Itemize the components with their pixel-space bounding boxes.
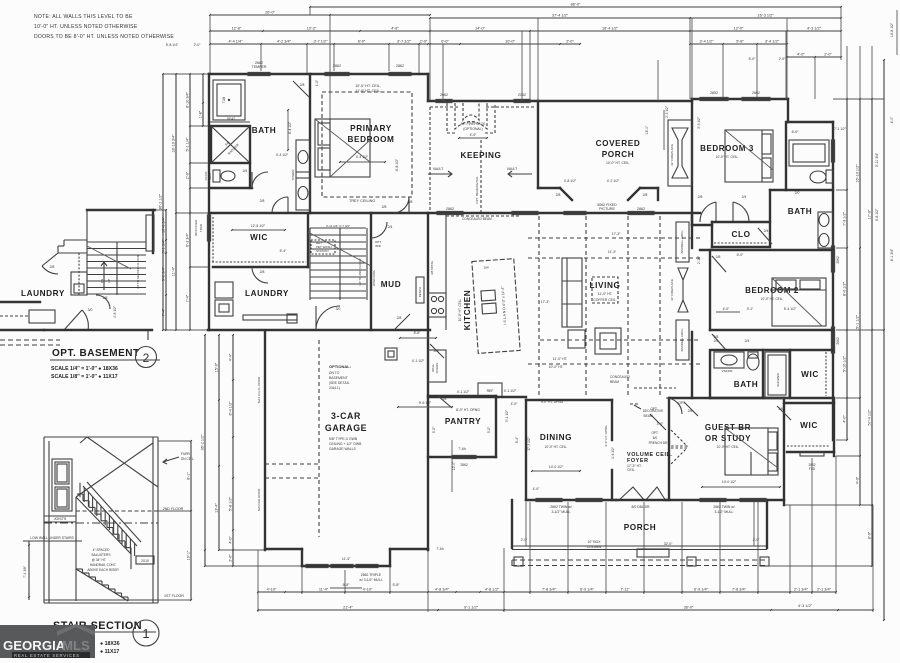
svg-text:CEILING + 1/2″ GWB: CEILING + 1/2″ GWB — [329, 442, 362, 446]
svg-text:1′-0″: 1′-0″ — [315, 79, 319, 86]
svg-text:8′-10 3/4″: 8′-10 3/4″ — [186, 91, 190, 108]
svg-text:16′-10 1/2″: 16′-10 1/2″ — [856, 164, 860, 183]
svg-text:4′-3 1/2″: 4′-3 1/2″ — [798, 604, 813, 608]
svg-text:2′-0″: 2′-0″ — [566, 40, 574, 44]
svg-text:26′-0″: 26′-0″ — [265, 11, 275, 15]
svg-text:2862: 2862 — [460, 463, 468, 467]
svg-text:BENCH: BENCH — [418, 287, 422, 298]
svg-text:10′-0″ HT.: 10′-0″ HT. — [549, 365, 564, 369]
svg-text:57′-4 1/2″: 57′-4 1/2″ — [868, 409, 872, 426]
svg-text:5′-8 1/4″: 5′-8 1/4″ — [166, 43, 179, 47]
svg-text:4′-10″: 4′-10″ — [267, 588, 277, 592]
svg-text:OPT.: OPT. — [651, 431, 658, 435]
svg-text:JOISTS: JOISTS — [54, 517, 67, 521]
svg-text:10′-0″ HT. UNLESS NOTED OTH: 10′-0″ HT. UNLESS NOTED OTHERWISE — [34, 24, 138, 30]
svg-text:7′-4″: 7′-4″ — [162, 308, 166, 316]
svg-text:REAL ESTATE SERVICES: REAL ESTATE SERVICES — [14, 653, 80, 658]
svg-text:2′-0″: 2′-0″ — [420, 40, 428, 44]
svg-text:PRIMARY: PRIMARY — [350, 124, 392, 133]
svg-text:10′-1″: 10′-1″ — [187, 550, 191, 560]
svg-text:DW: DW — [484, 265, 489, 269]
svg-text:2/8: 2/8 — [300, 83, 305, 87]
svg-text:2/4: 2/4 — [714, 339, 719, 343]
svg-text:4′-1 1/2″: 4′-1 1/2″ — [504, 389, 517, 393]
svg-text:UP: UP — [107, 279, 111, 283]
svg-text:8′-1 3/4″: 8′-1 3/4″ — [890, 248, 894, 261]
svg-text:6′-0″: 6′-0″ — [441, 40, 449, 44]
svg-text:11′-0″ HT.: 11′-0″ HT. — [598, 292, 612, 296]
svg-text:1′-6 1/2″: 1′-6 1/2″ — [611, 446, 615, 459]
svg-text:6′-4″: 6′-4″ — [515, 436, 519, 443]
svg-text:2′-0″: 2′-0″ — [186, 171, 190, 179]
svg-text:2′-0″: 2′-0″ — [229, 554, 233, 562]
svg-text:4′-8 3/4″: 4′-8 3/4″ — [435, 588, 450, 592]
svg-text:4′-4 1/2″: 4′-4 1/2″ — [276, 153, 289, 157]
svg-text:12′-8″: 12′-8″ — [232, 27, 242, 31]
svg-text:SCALE 1/4″ = 1′-0″ ● 18X36: SCALE 1/4″ = 1′-0″ ● 18X36 — [51, 366, 118, 372]
svg-text:7′-1 1/2″: 7′-1 1/2″ — [834, 127, 847, 131]
svg-text:4′-3 1/2″: 4′-3 1/2″ — [807, 27, 822, 31]
svg-text:4′-4″: 4′-4″ — [229, 353, 233, 361]
svg-text:10′-0″ HT. CEIL.: 10′-0″ HT. CEIL. — [355, 84, 381, 88]
svg-text:3-1/2″ MULL: 3-1/2″ MULL — [715, 510, 734, 514]
svg-text:3′-1 3/4″: 3′-1 3/4″ — [162, 239, 166, 254]
svg-text:MUD: MUD — [381, 280, 401, 289]
svg-text:w/ 3-1/2″ MULL: w/ 3-1/2″ MULL — [359, 578, 382, 582]
svg-text:BARRELL ARCH: BARRELL ARCH — [680, 231, 684, 254]
svg-text:OPTIONAL:: OPTIONAL: — [329, 364, 351, 369]
svg-text:16′-4 1/2″: 16′-4 1/2″ — [602, 27, 619, 31]
svg-text:8′-0″ HT. OPNG: 8′-0″ HT. OPNG — [456, 408, 480, 412]
svg-text:DN: DN — [100, 279, 104, 283]
svg-text:2/8: 2/8 — [716, 255, 721, 259]
svg-text:LOW WALL UNDER STAIRS: LOW WALL UNDER STAIRS — [30, 536, 74, 540]
svg-text:10′-2″: 10′-2″ — [307, 27, 317, 31]
svg-text:86′-0″: 86′-0″ — [571, 3, 581, 7]
svg-text:5′-8″: 5′-8″ — [343, 583, 351, 587]
svg-text:4′-0″: 4′-0″ — [797, 53, 805, 57]
svg-text:3′-3 1/2″: 3′-3 1/2″ — [697, 116, 701, 129]
svg-text:36′-0″: 36′-0″ — [684, 606, 694, 610]
svg-text:2862: 2862 — [333, 64, 341, 68]
svg-text:11′-4″: 11′-4″ — [342, 557, 351, 561]
svg-text:15′-0″: 15′-0″ — [215, 362, 219, 372]
svg-text:CEIL.: CEIL. — [627, 468, 636, 472]
svg-text:42″ FIREPLACE: 42″ FIREPLACE — [670, 279, 674, 301]
svg-text:CONCEALED BEAM: CONCEALED BEAM — [462, 217, 492, 221]
svg-text:4′-0″: 4′-0″ — [856, 476, 860, 484]
svg-text:2862 TRIPLE: 2862 TRIPLE — [361, 573, 382, 577]
svg-text:COFFER CEIL.: COFFER CEIL. — [593, 298, 616, 302]
svg-text:2862: 2862 — [836, 256, 840, 264]
svg-text:HANDRAIL CONT.: HANDRAIL CONT. — [90, 563, 117, 567]
svg-text:4′-1 1/2″: 4′-1 1/2″ — [412, 359, 425, 363]
svg-text:GARAGE WALLS: GARAGE WALLS — [329, 447, 357, 451]
svg-text:2862: 2862 — [836, 337, 840, 345]
svg-text:VS2430: VS2430 — [722, 369, 733, 373]
svg-text:2/A4.1): 2/A4.1) — [329, 386, 340, 390]
svg-text:10′-0″ HT. CEIL.: 10′-0″ HT. CEIL. — [716, 155, 739, 159]
svg-text:NOTE: ALL WALLS THIS LEVEL: NOTE: ALL WALLS THIS LEVEL TO BE — [34, 14, 133, 20]
svg-text:COLUMN: COLUMN — [587, 545, 602, 549]
svg-text:11′-0″ HT.: 11′-0″ HT. — [553, 357, 567, 361]
svg-text:36′-2 1/2″: 36′-2 1/2″ — [159, 193, 163, 210]
svg-text:SHOWER: SHOWER — [776, 372, 780, 386]
svg-text:7′-4″: 7′-4″ — [186, 294, 190, 302]
svg-text:4′-1 1/2″: 4′-1 1/2″ — [457, 390, 470, 394]
svg-text:4′-4 1/2″: 4′-4 1/2″ — [288, 121, 292, 134]
svg-text:3′-4 1/2″: 3′-4 1/2″ — [765, 40, 780, 44]
svg-text:OPEN RAIL: OPEN RAIL — [372, 270, 376, 286]
svg-text:2/4: 2/4 — [745, 339, 750, 343]
svg-text:(OPTIONAL): (OPTIONAL) — [463, 127, 482, 131]
svg-text:7′-4 1/8″: 7′-4 1/8″ — [23, 565, 27, 578]
svg-text:WIC: WIC — [800, 421, 818, 430]
svg-text:GARAGE: GARAGE — [325, 423, 367, 433]
svg-text:6′-0″: 6′-0″ — [792, 130, 800, 134]
svg-text:KITCHEN: KITCHEN — [463, 290, 472, 331]
svg-text:BATH: BATH — [734, 380, 759, 389]
svg-text:6′-9 1/4″: 6′-9 1/4″ — [580, 588, 595, 592]
svg-text:9′-1 1/2″: 9′-1 1/2″ — [464, 606, 479, 610]
svg-text:5′-8″: 5′-8″ — [393, 583, 401, 587]
svg-text:COVERED: COVERED — [596, 139, 641, 148]
svg-text:BARRELL ARCH: BARRELL ARCH — [680, 329, 684, 352]
svg-text:3-1/2″ MULL: 3-1/2″ MULL — [552, 510, 571, 514]
svg-text:PICTURE: PICTURE — [599, 207, 615, 211]
svg-text:DECORATIVE: DECORATIVE — [643, 409, 663, 413]
svg-text:32′-0″: 32′-0″ — [664, 542, 673, 546]
svg-text:42″ FIREPLACE: 42″ FIREPLACE — [670, 144, 674, 166]
svg-text:21′-4″: 21′-4″ — [343, 606, 353, 610]
svg-text:6′-9 1/4″: 6′-9 1/4″ — [694, 588, 709, 592]
svg-text:2ND FLOOR: 2ND FLOOR — [163, 507, 184, 511]
svg-text:BEDROOM: BEDROOM — [348, 135, 395, 144]
svg-text:8′-0 1/2″: 8′-0 1/2″ — [843, 281, 847, 296]
svg-text:5′-2 3/4″: 5′-2 3/4″ — [162, 266, 166, 281]
svg-text:6′-0″: 6′-0″ — [358, 40, 366, 44]
svg-text:2/4: 2/4 — [243, 169, 248, 173]
svg-text:9′-0″ HT. OPNG: 9′-0″ HT. OPNG — [604, 425, 608, 447]
svg-text:3′-7 1/2″: 3′-7 1/2″ — [397, 40, 412, 44]
svg-text:14′-0″: 14′-0″ — [475, 27, 485, 31]
svg-text:15′-1 1/2″: 15′-1 1/2″ — [856, 314, 860, 331]
svg-text:DOORS TO BE 8′-0″ HT. UNL: DOORS TO BE 8′-0″ HT. UNLESS NOTED OTHER… — [34, 34, 174, 40]
svg-text:7′-6h: 7′-6h — [458, 447, 466, 451]
svg-text:7′-11″: 7′-11″ — [620, 588, 630, 592]
svg-text:10″ BOX: 10″ BOX — [587, 540, 601, 544]
svg-text:14′-0 1/2″: 14′-0 1/2″ — [722, 480, 737, 484]
svg-text:18′-10 3/4″: 18′-10 3/4″ — [172, 134, 176, 153]
svg-text:5′-10 1/2″: 5′-10 1/2″ — [843, 355, 847, 372]
svg-text:2′-0″: 2′-0″ — [521, 538, 529, 542]
svg-text:LAUNDRY: LAUNDRY — [245, 289, 289, 298]
svg-text:STATION: STATION — [316, 249, 329, 253]
svg-text:37′-4 1/2″: 37′-4 1/2″ — [552, 14, 569, 18]
svg-text:OPT. BASEMENT: OPT. BASEMENT — [52, 348, 140, 359]
svg-text:DINING: DINING — [540, 433, 572, 442]
svg-text:5′-8″: 5′-8″ — [736, 40, 744, 44]
svg-text:2862 TWIN w/: 2862 TWIN w/ — [713, 505, 734, 509]
svg-text:2′-1 3/4″: 2′-1 3/4″ — [794, 588, 809, 592]
svg-text:4′-0″: 4′-0″ — [470, 133, 478, 137]
svg-text:UP TO SECOND FLOOR: UP TO SECOND FLOOR — [136, 254, 140, 289]
svg-text:14′-0 1/2″: 14′-0 1/2″ — [549, 465, 564, 469]
svg-text:● 18X36: ● 18X36 — [100, 641, 120, 647]
svg-text:10′-0″ HT. CEIL.: 10′-0″ HT. CEIL. — [545, 445, 568, 449]
svg-text:3′-1″: 3′-1″ — [747, 307, 755, 311]
svg-text:7′-6h: 7′-6h — [436, 547, 444, 551]
svg-text:3′-10 3/4″: 3′-10 3/4″ — [875, 152, 879, 167]
svg-text:2′-0″: 2′-0″ — [779, 57, 787, 61]
svg-text:SEAT: SEAT — [208, 172, 212, 180]
svg-text:PANTRY: PANTRY — [445, 417, 481, 426]
svg-text:SCALE 1/8″ = 1′-0″ ● 11X17: SCALE 1/8″ = 1′-0″ ● 11X17 — [51, 374, 118, 380]
svg-text:7′-8 3/4″: 7′-8 3/4″ — [542, 588, 557, 592]
svg-text:TEMPER: TEMPER — [252, 65, 267, 69]
svg-text:3′-7 1/2″: 3′-7 1/2″ — [314, 40, 329, 44]
svg-text:11′-4″: 11′-4″ — [319, 588, 329, 592]
svg-text:FXD: FXD — [809, 467, 816, 471]
svg-text:2/4: 2/4 — [742, 195, 747, 199]
svg-text:2/4: 2/4 — [764, 229, 769, 233]
svg-text:10′-0″ HT. CEIL.: 10′-0″ HT. CEIL. — [606, 161, 630, 165]
svg-text:● 11X17: ● 11X17 — [100, 649, 119, 655]
svg-text:3010 FIXED: 3010 FIXED — [194, 219, 198, 236]
svg-text:2862: 2862 — [396, 64, 404, 68]
svg-text:8/0 DBL DR.: 8/0 DBL DR. — [632, 505, 651, 509]
svg-text:BEDROOM 3: BEDROOM 3 — [700, 144, 754, 153]
svg-text:TREY CEILING: TREY CEILING — [349, 199, 375, 203]
svg-text:VAULT: VAULT — [507, 167, 517, 171]
svg-text:2/8: 2/8 — [556, 193, 561, 197]
svg-text:FRENCH DR: FRENCH DR — [649, 441, 668, 445]
svg-text:LAUNDRY: LAUNDRY — [21, 289, 65, 298]
svg-text:2852: 2852 — [752, 91, 760, 95]
svg-text:UP TO 2ND FLOOR: UP TO 2ND FLOOR — [358, 258, 362, 286]
svg-text:4′-4 1/2″: 4′-4 1/2″ — [356, 155, 369, 159]
svg-text:4′-4 1/4″: 4′-4 1/4″ — [229, 40, 244, 44]
svg-text:(SEE DETAIL: (SEE DETAIL — [329, 381, 350, 385]
svg-text:4′-0″: 4′-0″ — [890, 116, 894, 124]
svg-text:CONCEALED: CONCEALED — [610, 375, 631, 379]
svg-text:4″-SPACED: 4″-SPACED — [93, 548, 111, 552]
svg-text:2062: 2062 — [440, 93, 448, 97]
svg-text:4′-0″: 4′-0″ — [843, 415, 847, 423]
svg-text:WIC: WIC — [801, 370, 819, 379]
svg-text:3′-4 1/2″: 3′-4 1/2″ — [700, 40, 715, 44]
svg-text:4′-8 1/2″: 4′-8 1/2″ — [113, 305, 117, 318]
svg-text:12′-0″: 12′-0″ — [452, 461, 456, 470]
svg-text:2/0: 2/0 — [795, 191, 800, 195]
svg-text:BEAM: BEAM — [610, 380, 619, 384]
svg-text:OVENS: OVENS — [435, 363, 439, 374]
svg-text:5′-8 1/2″: 5′-8 1/2″ — [229, 496, 233, 511]
svg-text:OPT. BEAM DETAIL: OPT. BEAM DETAIL — [475, 176, 479, 203]
svg-text:8′-6″: 8′-6″ — [414, 331, 422, 335]
svg-text:3/8 OPNG: 3/8 OPNG — [430, 260, 434, 275]
svg-text:2852: 2852 — [710, 91, 718, 95]
svg-text:2/8: 2/8 — [260, 199, 265, 203]
svg-text:5′-4 1/2″: 5′-4 1/2″ — [784, 307, 797, 311]
svg-text:1′-8″: 1′-8″ — [199, 110, 203, 118]
svg-text:4′-2 3/4″: 4′-2 3/4″ — [277, 40, 292, 44]
svg-text:2/8: 2/8 — [260, 270, 265, 274]
svg-text:1ST FLOOR: 1ST FLOOR — [164, 594, 184, 598]
svg-text:14′-8 1/2″: 14′-8 1/2″ — [890, 22, 894, 37]
svg-text:BEAM: BEAM — [643, 414, 652, 418]
svg-text:11′-4″: 11′-4″ — [172, 266, 176, 276]
svg-text:2′-0″: 2′-0″ — [824, 53, 832, 57]
svg-text:17′-3″: 17′-3″ — [541, 300, 550, 304]
svg-text:4′-8 1/2″: 4′-8 1/2″ — [485, 588, 500, 592]
svg-text:4′-0″: 4′-0″ — [511, 402, 519, 406]
svg-text:2′-0″: 2′-0″ — [194, 43, 202, 47]
svg-text:4′-8″: 4′-8″ — [391, 27, 399, 31]
svg-text:6′-0″: 6′-0″ — [737, 253, 745, 257]
svg-text:13′-4″: 13′-4″ — [215, 503, 219, 513]
svg-text:4′-2 1/2″: 4′-2 1/2″ — [607, 179, 620, 183]
svg-text:36′-2 1/2″: 36′-2 1/2″ — [201, 434, 205, 451]
svg-text:OR STUDY: OR STUDY — [705, 434, 751, 443]
svg-text:SEAT: SEAT — [227, 117, 235, 121]
svg-text:10′-0″ HT. CEIL.: 10′-0″ HT. CEIL. — [717, 445, 740, 449]
svg-text:VAULT: VAULT — [433, 167, 443, 171]
svg-text:2: 2 — [143, 351, 150, 365]
svg-text:DN TO: DN TO — [329, 371, 340, 375]
svg-text:14′-0″: 14′-0″ — [645, 125, 649, 134]
svg-text:4′-0″: 4′-0″ — [229, 536, 233, 544]
svg-text:7′-8 3/4″: 7′-8 3/4″ — [732, 588, 747, 592]
svg-text:4′-10″: 4′-10″ — [363, 588, 373, 592]
svg-text:6′-0″: 6′-0″ — [749, 57, 757, 61]
svg-text:2/8: 2/8 — [643, 193, 648, 197]
svg-text:7′-3 1/2″: 7′-3 1/2″ — [843, 211, 847, 226]
svg-text:2′-10″: 2′-10″ — [697, 255, 701, 264]
svg-text:3-CAR: 3-CAR — [331, 411, 361, 421]
svg-text:ABOVE EACH RISER: ABOVE EACH RISER — [87, 568, 119, 572]
svg-text:4′-0″: 4′-0″ — [533, 487, 541, 491]
svg-text:6′-3 3/4″: 6′-3 3/4″ — [186, 232, 190, 247]
svg-text:4′-8 1/2″: 4′-8 1/2″ — [564, 179, 577, 183]
svg-text:3/0: 3/0 — [336, 307, 341, 311]
svg-text:GEORGIA: GEORGIA — [3, 638, 66, 653]
svg-text:2/8: 2/8 — [408, 200, 413, 204]
svg-text:BATH: BATH — [252, 126, 277, 135]
svg-text:TOWER: TOWER — [291, 169, 295, 181]
svg-text:1: 1 — [142, 626, 149, 641]
svg-text:WIC: WIC — [250, 233, 268, 242]
svg-text:2/8: 2/8 — [50, 265, 55, 269]
svg-text:5′-1 1/4″: 5′-1 1/4″ — [186, 137, 190, 152]
svg-text:8′-1″: 8′-1″ — [187, 472, 191, 480]
svg-text:2/8: 2/8 — [698, 195, 703, 199]
svg-text:10′-0″: 10′-0″ — [505, 40, 515, 44]
svg-text:10′-0″ HT. CEIL.: 10′-0″ HT. CEIL. — [458, 299, 462, 322]
svg-text:11′-3″: 11′-3″ — [608, 250, 617, 254]
svg-text:REF: REF — [487, 389, 494, 393]
svg-text:2/8: 2/8 — [382, 205, 387, 209]
svg-text:5′-0″: 5′-0″ — [487, 426, 491, 433]
svg-text:BASEMENT: BASEMENT — [329, 376, 348, 380]
svg-text:8′-0″: 8′-0″ — [868, 531, 872, 539]
svg-text:2/4: 2/4 — [388, 225, 393, 229]
svg-text:TRAN: TRAN — [199, 224, 203, 232]
svg-text:9′-0″ HT. OPNG: 9′-0″ HT. OPNG — [541, 400, 564, 404]
svg-text:8x16 O.H.G. DOOR: 8x16 O.H.G. DOOR — [257, 376, 261, 403]
svg-text:5′-4″: 5′-4″ — [280, 249, 288, 253]
svg-text:PORCH: PORCH — [624, 523, 657, 532]
svg-text:12′-0″: 12′-0″ — [734, 27, 744, 31]
svg-text:TUB: TUB — [222, 97, 226, 103]
svg-text:2X10: 2X10 — [141, 559, 149, 563]
svg-text:3/0: 3/0 — [88, 308, 93, 312]
svg-text:17′-0″: 17′-0″ — [868, 209, 872, 219]
svg-text:17′-3″: 17′-3″ — [612, 232, 621, 236]
svg-text:BATH: BATH — [788, 207, 813, 216]
svg-text:6/0: 6/0 — [653, 436, 658, 440]
svg-text:2/8: 2/8 — [397, 316, 402, 320]
svg-text:4′-8 1/2″: 4′-8 1/2″ — [875, 208, 879, 221]
svg-text:5′-0″: 5′-0″ — [432, 426, 436, 433]
svg-text:CLO: CLO — [731, 230, 750, 239]
svg-text:LIVING: LIVING — [590, 281, 621, 290]
svg-text:2862 TWIN w/: 2862 TWIN w/ — [550, 505, 571, 509]
svg-text:8′-4 1/2″: 8′-4 1/2″ — [229, 401, 233, 416]
svg-text:@ 34″ HT.: @ 34″ HT. — [92, 558, 107, 562]
svg-text:5′-1 1/2″: 5′-1 1/2″ — [505, 409, 509, 422]
svg-text:42″ FIREPLACE: 42″ FIREPLACE — [461, 122, 486, 126]
svg-text:2862: 2862 — [446, 207, 454, 211]
svg-text:DN CEIL.: DN CEIL. — [181, 457, 195, 461]
svg-text:9′-6 1/2″: 9′-6 1/2″ — [419, 401, 432, 405]
svg-text:17′-3 1/2″: 17′-3 1/2″ — [527, 436, 531, 450]
svg-text:8x8 OHG DOOR: 8x8 OHG DOOR — [257, 488, 261, 511]
svg-text:16′-3 1/2″: 16′-3 1/2″ — [758, 14, 775, 18]
svg-text:12′-5 1/2″: 12′-5 1/2″ — [251, 224, 266, 228]
svg-text:2′-1 3/4″: 2′-1 3/4″ — [817, 588, 832, 592]
svg-text:11′-0″ HT. CEIL.: 11′-0″ HT. CEIL. — [355, 89, 380, 93]
svg-text:5/8″ TYPE-X GWB: 5/8″ TYPE-X GWB — [329, 437, 358, 441]
svg-text:10′-8 3/4″: 10′-8 3/4″ — [162, 216, 166, 233]
svg-text:MLS: MLS — [62, 638, 90, 653]
svg-text:PORCH: PORCH — [602, 150, 635, 159]
svg-text:2′-3 1/2″: 2′-3 1/2″ — [665, 105, 669, 118]
svg-text:4′-0″: 4′-0″ — [723, 307, 731, 311]
svg-text:3′-11 1/4″ 3′-7 3/4″: 3′-11 1/4″ 3′-7 3/4″ — [326, 224, 350, 228]
svg-text:FURR: FURR — [181, 452, 191, 456]
svg-text:W/D: W/D — [375, 244, 382, 248]
svg-text:BALUSTERS: BALUSTERS — [92, 553, 111, 557]
svg-text:2862: 2862 — [637, 207, 645, 211]
svg-text:4′-8 1/2″: 4′-8 1/2″ — [395, 158, 399, 171]
